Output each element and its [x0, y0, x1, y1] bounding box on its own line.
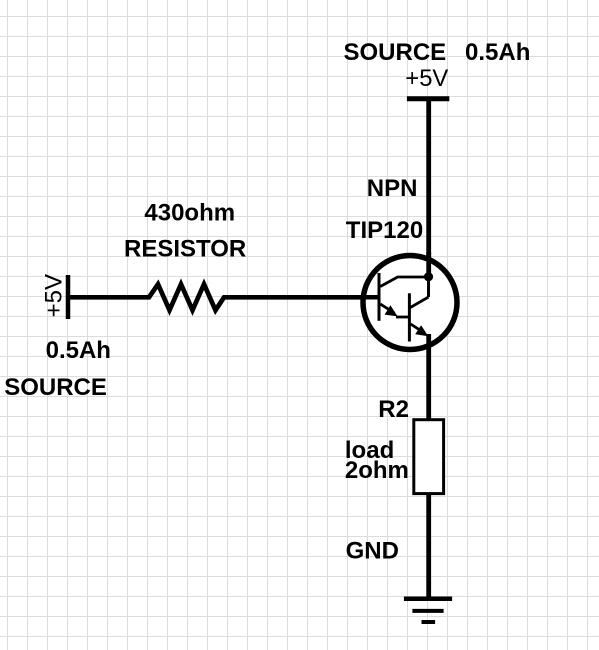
svg-text:SOURCE: SOURCE: [4, 374, 107, 401]
svg-text:TIP120: TIP120: [346, 217, 423, 244]
svg-text:2ohm: 2ohm: [345, 457, 409, 484]
svg-text:RESISTOR: RESISTOR: [124, 236, 246, 263]
svg-text:SOURCE: SOURCE: [344, 39, 447, 66]
svg-text:GND: GND: [346, 537, 399, 564]
svg-text:R2: R2: [378, 396, 409, 423]
svg-text:0.5Ah: 0.5Ah: [465, 39, 530, 66]
svg-text:+5V: +5V: [405, 65, 448, 92]
svg-text:NPN: NPN: [367, 175, 418, 202]
svg-text:0.5Ah: 0.5Ah: [46, 337, 111, 364]
svg-text:430ohm: 430ohm: [144, 200, 235, 227]
svg-text:+5V: +5V: [40, 274, 67, 318]
